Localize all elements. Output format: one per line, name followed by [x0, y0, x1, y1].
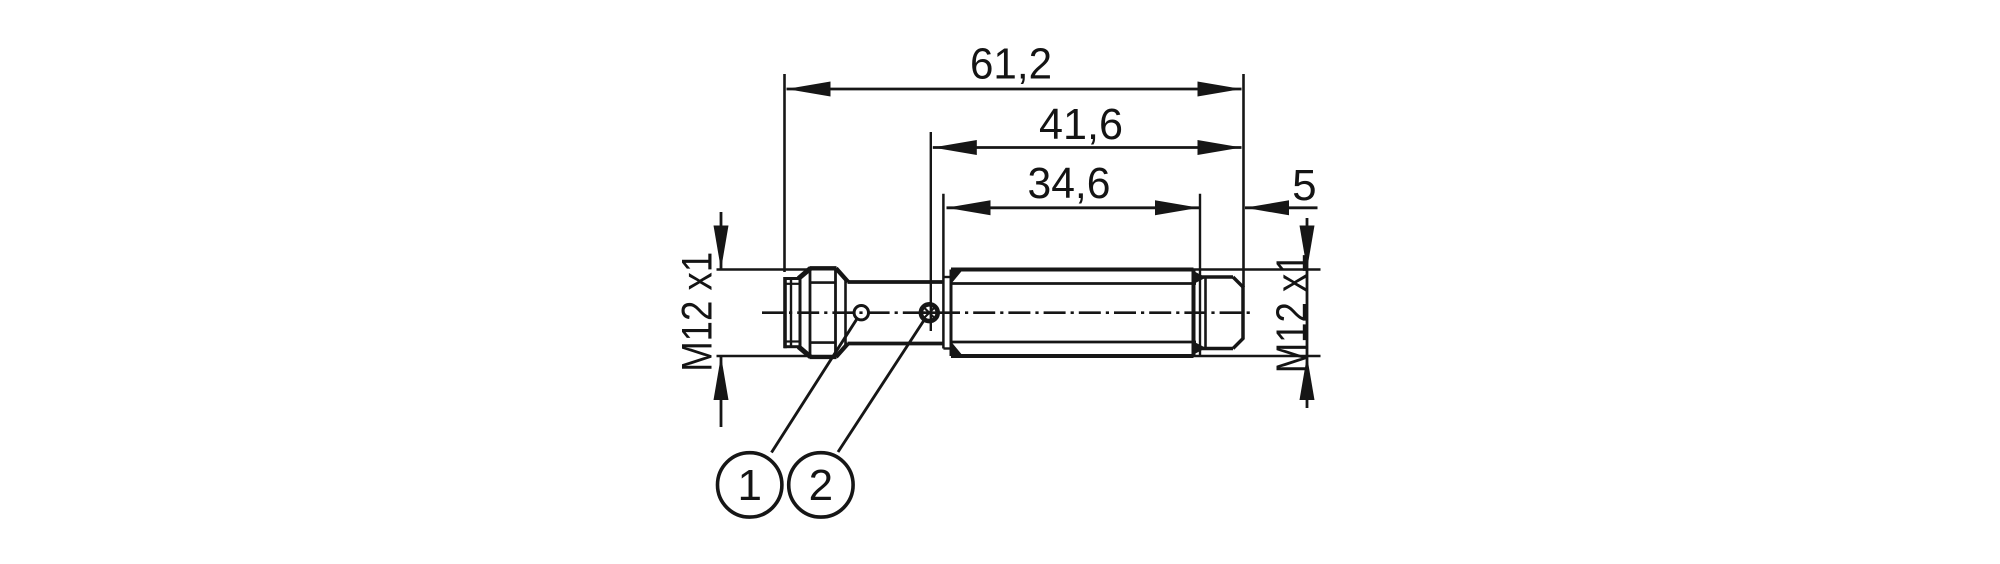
node 1: small circle (LED) on body — [854, 306, 868, 320]
svg-text:41,6: 41,6 — [1039, 100, 1123, 149]
dimension 61,2 — [787, 40, 1242, 97]
centerline — [762, 311, 1251, 314]
wire: extension line left of 34,6 (step face) — [942, 194, 945, 349]
node 2: marked circle on body — [920, 304, 939, 321]
dimension M12 x1 left — [675, 212, 810, 427]
connector tube (left end) — [784, 277, 800, 348]
svg-text:M12 x1: M12 x1 — [1269, 253, 1316, 373]
connector nut (left) — [799, 268, 849, 357]
svg-text:61,2: 61,2 — [970, 40, 1052, 89]
wire: extension line right of 61,2 / 41,6 — [1242, 74, 1245, 287]
svg-text:5: 5 — [1292, 161, 1316, 210]
dimension 5 — [1245, 161, 1318, 215]
sensor mid body — [848, 277, 952, 349]
balloon 1 — [718, 453, 782, 517]
dimension 34,6 — [947, 159, 1200, 215]
wire: extension line left of 61,2 — [783, 74, 786, 272]
leader to balloon 1 — [772, 318, 858, 452]
dimension M12 x1 right — [1194, 218, 1321, 408]
wire: extension line right of 34,6 / left of 5 — [1199, 194, 1201, 356]
dimension 41,6 — [933, 100, 1242, 155]
end cap (right, 5mm) — [1194, 271, 1244, 355]
balloon 2 — [789, 453, 853, 517]
wire: extension line left of 41,6 (through node 2) — [930, 132, 932, 331]
svg-text:1: 1 — [737, 461, 761, 510]
svg-text:M12 x1: M12 x1 — [675, 252, 722, 372]
svg-text:34,6: 34,6 — [1028, 159, 1111, 208]
leader to balloon 2 — [838, 320, 925, 453]
svg-text:2: 2 — [809, 461, 833, 510]
threaded section M12 — [951, 270, 1196, 357]
